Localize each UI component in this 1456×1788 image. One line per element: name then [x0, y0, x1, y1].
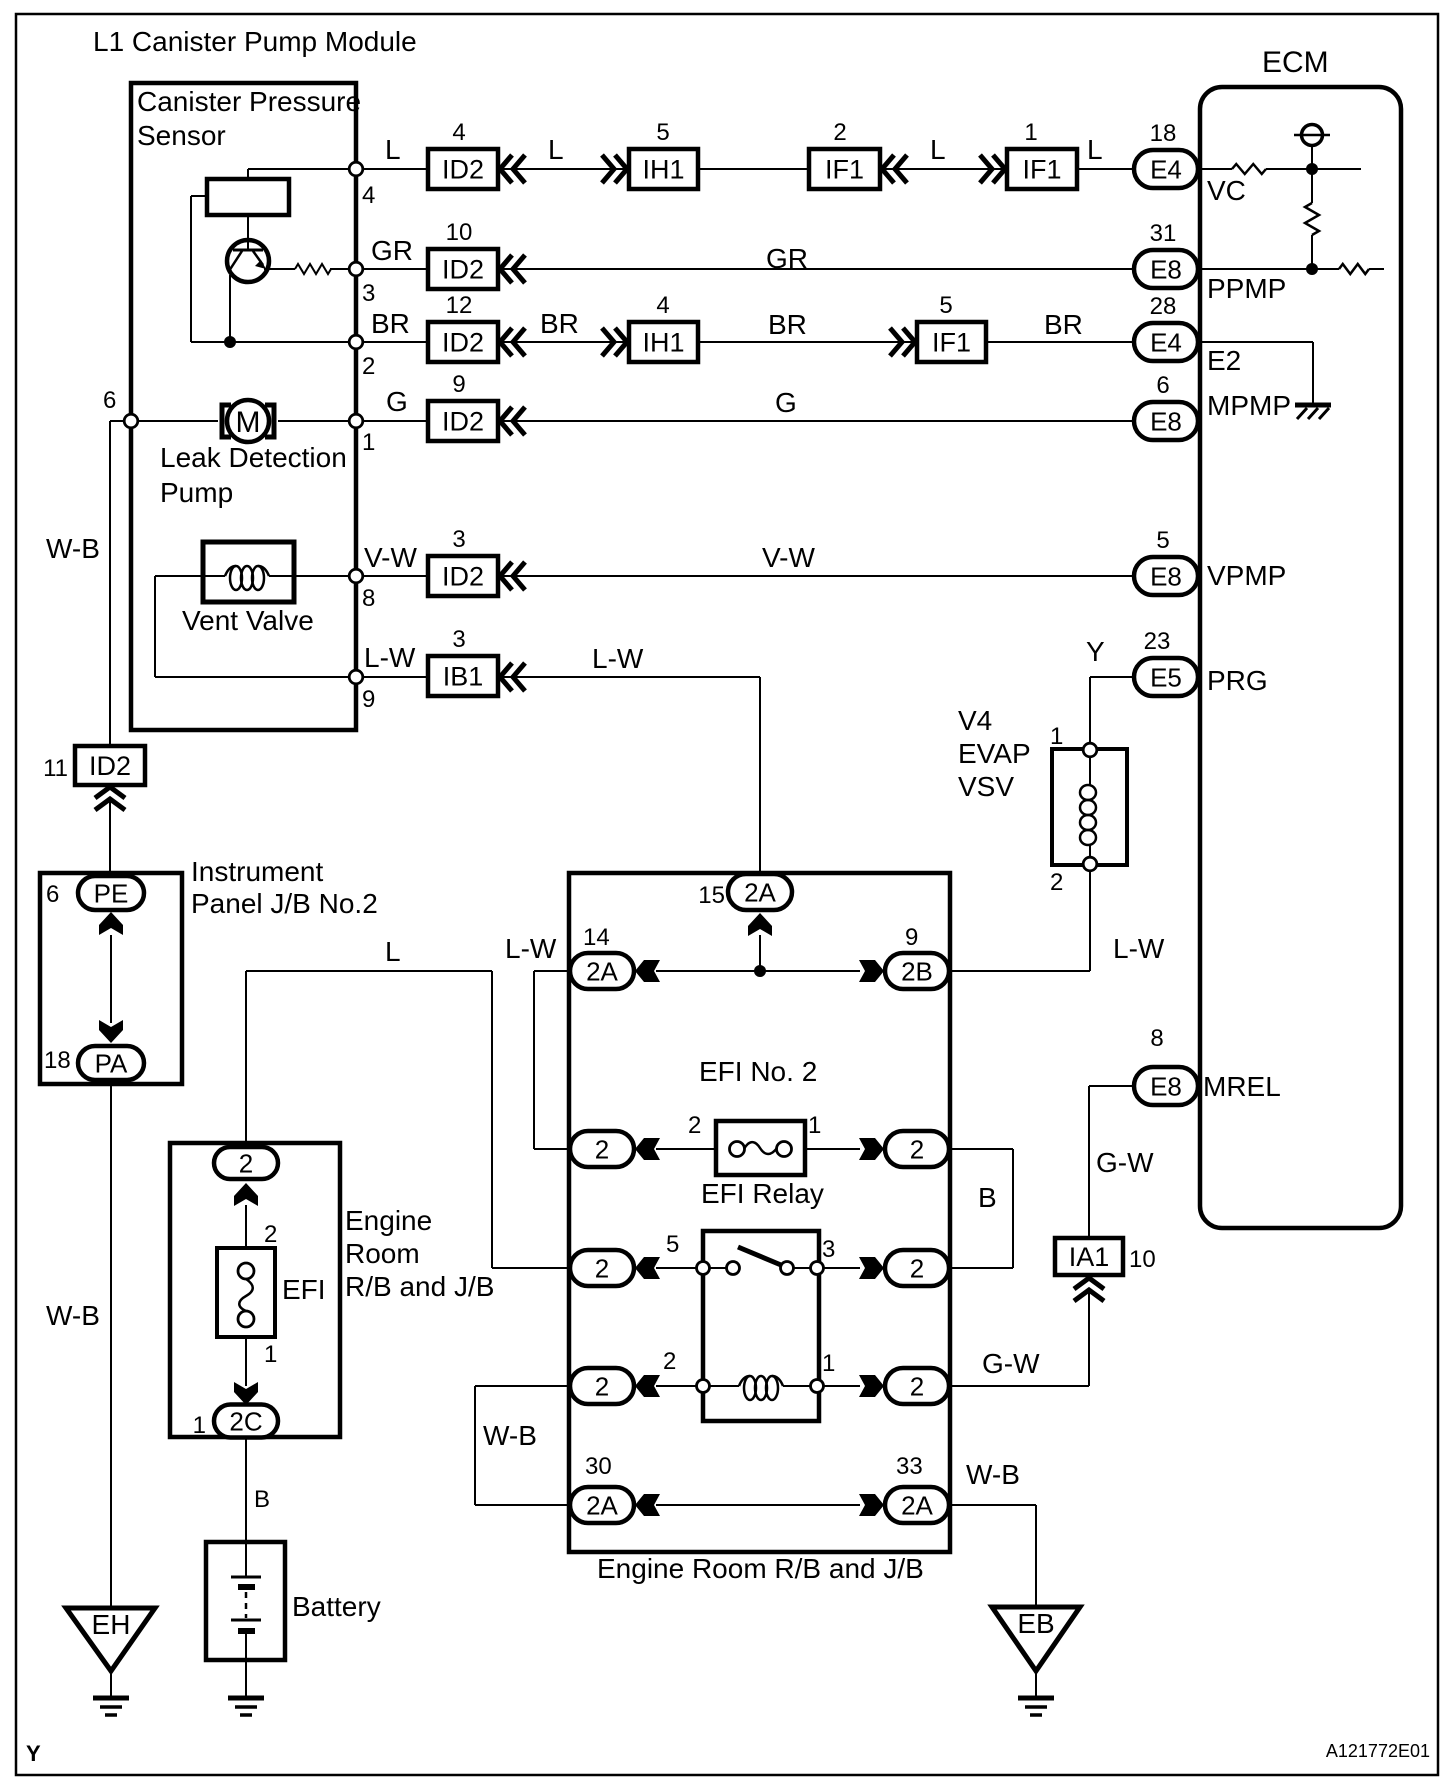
svg-text:PA: PA [95, 1048, 128, 1078]
svg-text:Room: Room [345, 1238, 420, 1269]
relay contact inner circles [727, 1262, 740, 1275]
svg-text:3: 3 [452, 526, 465, 553]
arrow before 2A-33 [859, 1494, 884, 1516]
connector 2A pin15 [728, 874, 792, 910]
svg-text:W-B: W-B [483, 1420, 537, 1451]
wire PE to PA [110, 935, 112, 1023]
arrow down above PA [99, 1020, 123, 1043]
svg-text:E8: E8 [1150, 406, 1182, 436]
EVAP VSV pin1 [1083, 743, 1097, 757]
svg-text:4: 4 [362, 182, 375, 209]
ground EB symbol [1018, 1696, 1054, 1701]
junction VC node [1306, 163, 1318, 175]
connector PE pin6 [78, 876, 144, 910]
svg-text:IF1: IF1 [1022, 155, 1061, 185]
arrow at 2A-30 [635, 1494, 660, 1516]
engine room left box [170, 1143, 340, 1437]
wire PPMP internal [1198, 268, 1339, 270]
svg-text:6: 6 [1156, 372, 1169, 399]
svg-text:8: 8 [362, 585, 375, 612]
connector IF1 pin2 [809, 149, 880, 189]
resistor sensor output [295, 264, 331, 274]
connector 2A pin14 [570, 953, 634, 989]
svg-text:1: 1 [264, 1341, 277, 1368]
svg-text:IF1: IF1 [932, 328, 971, 358]
connector IA1 pin10 [1055, 1238, 1123, 1275]
svg-text:L-W: L-W [505, 933, 557, 964]
wire Y to E5 [1090, 676, 1134, 678]
svg-text:2A: 2A [586, 1490, 618, 1520]
connector IH1 pin5 [629, 149, 698, 189]
chevrons below IA1 [1074, 1278, 1104, 1289]
svg-text:2: 2 [595, 1134, 609, 1164]
svg-text:EFI Relay: EFI Relay [701, 1178, 824, 1209]
EVAP VSV box [1052, 749, 1127, 865]
arrow at 2A-14 [635, 960, 660, 982]
wire VC internal [1198, 168, 1232, 170]
svg-text:3: 3 [822, 1236, 835, 1263]
ground point EH [66, 1608, 155, 1671]
svg-text:G: G [386, 386, 408, 417]
arrow before right 2 fuse row [859, 1138, 884, 1160]
ground point EB [992, 1607, 1080, 1671]
wire resistor to pin3 [330, 268, 349, 270]
svg-text:L-W: L-W [1113, 933, 1165, 964]
svg-text:2B: 2B [901, 956, 933, 986]
svg-text:R/B and J/B: R/B and J/B [345, 1271, 494, 1302]
arrow up below 2A-15 [748, 913, 772, 936]
chevrons before IF1-1 [980, 155, 992, 183]
svg-text:Y: Y [26, 1741, 41, 1766]
junction JB top bus [754, 965, 766, 977]
connector E8 pin31 [1134, 250, 1198, 288]
svg-text:2: 2 [663, 1348, 676, 1375]
connector IF1 pin5 [917, 322, 986, 362]
connector IF1 pin1 [1007, 149, 1077, 189]
svg-text:L-W: L-W [592, 643, 644, 674]
svg-text:IH1: IH1 [642, 328, 684, 358]
svg-text:IB1: IB1 [443, 662, 484, 692]
EVAP VSV coil [1080, 785, 1096, 800]
arrow down above 2C [234, 1382, 258, 1405]
svg-text:VPMP: VPMP [1207, 560, 1286, 591]
fuse EFI No.2 [716, 1121, 805, 1175]
svg-text:ECM: ECM [1262, 46, 1329, 79]
svg-text:GR: GR [371, 235, 413, 266]
connector IB1 pin3 [428, 656, 498, 696]
chevrons below ID2-11 [95, 787, 125, 798]
connector E4 pin18 [1134, 150, 1198, 188]
wire motor to pin1 [278, 420, 349, 422]
svg-text:BR: BR [768, 309, 807, 340]
svg-text:G-W: G-W [1096, 1147, 1154, 1178]
svg-text:6: 6 [103, 387, 116, 414]
svg-text:3: 3 [452, 626, 465, 653]
arrow before right 2 contact row [859, 1257, 884, 1279]
svg-text:Pump: Pump [160, 477, 233, 508]
arrow at left contact row [635, 1257, 660, 1279]
relay contact pin5 circle [697, 1262, 710, 1275]
chevrons after ID2 row8 [500, 562, 512, 590]
svg-text:PE: PE [94, 878, 129, 908]
wire VSV pin2 to JB [1089, 871, 1091, 971]
svg-text:2: 2 [239, 1148, 253, 1178]
svg-text:BR: BR [540, 308, 579, 339]
chevrons before IH1 row1 [602, 155, 614, 183]
wire sensor element to transistor [247, 215, 249, 250]
connector 2A pin30 [570, 1487, 634, 1523]
svg-text:V4: V4 [958, 705, 992, 736]
svg-text:BR: BR [1044, 309, 1083, 340]
svg-text:2: 2 [910, 1371, 924, 1401]
ground battery [228, 1696, 264, 1701]
svg-text:ID2: ID2 [89, 751, 131, 781]
connector E4 pin28 [1134, 323, 1198, 361]
connector 2C pin1 [214, 1405, 278, 1438]
svg-text:8: 8 [1150, 1025, 1163, 1052]
connector 2A pin33 [885, 1487, 949, 1523]
wire transistor to common [229, 275, 231, 342]
relay coil [744, 1376, 756, 1400]
ground EH symbol [93, 1696, 129, 1701]
chevrons after ID2 row1 [500, 155, 512, 183]
canister pump module box [131, 83, 356, 730]
terminal pin 6 canister module [124, 414, 138, 428]
wire vent valve return [154, 576, 156, 677]
wire B loop [949, 1148, 1013, 1150]
svg-text:A121772E01: A121772E01 [1326, 1741, 1430, 1761]
svg-text:PRG: PRG [1207, 665, 1268, 696]
connector ID2 pin9 [428, 401, 498, 441]
svg-text:9: 9 [362, 686, 375, 713]
connector E8 pin5 [1134, 557, 1198, 595]
wire 2A15 to bus [759, 935, 761, 971]
wire BR row3 [363, 341, 428, 343]
connector 2 left coil row [570, 1368, 634, 1404]
connector ID2 pin4 [428, 149, 498, 189]
svg-text:PPMP: PPMP [1207, 273, 1286, 304]
svg-text:G: G [775, 387, 797, 418]
wire contact inner [710, 1267, 727, 1269]
svg-text:ID2: ID2 [442, 407, 484, 437]
wire MREL to IA1 [1089, 1085, 1134, 1087]
terminal pin 3 canister module [349, 262, 363, 276]
instrument panel J/B box [40, 873, 182, 1084]
wire fuse row left [656, 1148, 716, 1150]
svg-text:E8: E8 [1150, 254, 1182, 284]
svg-text:18: 18 [44, 1047, 71, 1074]
svg-text:12: 12 [446, 292, 473, 319]
pressure sensor element [207, 179, 289, 215]
svg-text:EFI No. 2: EFI No. 2 [699, 1056, 817, 1087]
svg-text:14: 14 [583, 924, 610, 951]
svg-text:5: 5 [666, 1231, 679, 1258]
svg-text:V-W: V-W [364, 542, 417, 573]
chevrons after IB1 [500, 663, 512, 691]
connector E8 pin8 MREL [1134, 1067, 1198, 1105]
connector 2 right contact row [885, 1250, 949, 1286]
svg-text:EH: EH [92, 1609, 131, 1640]
svg-text:VSV: VSV [958, 771, 1014, 802]
svg-text:V-W: V-W [762, 542, 815, 573]
relay contact pin3 circle [811, 1262, 824, 1275]
svg-text:1: 1 [362, 429, 375, 456]
svg-text:Battery: Battery [292, 1591, 381, 1622]
svg-text:L: L [1087, 134, 1103, 165]
ground E2 internal [1295, 403, 1331, 408]
wire sensor common to pin2 [191, 341, 349, 343]
connector ID2 pin3 [428, 556, 498, 596]
wire L-W loop [534, 970, 570, 972]
svg-text:EVAP: EVAP [958, 738, 1031, 769]
wire G row4 [363, 420, 428, 422]
chevrons after ID2 row3 [500, 328, 512, 356]
transistor sensor output [227, 240, 269, 282]
svg-text:E8: E8 [1150, 1071, 1182, 1101]
svg-text:E4: E4 [1150, 154, 1182, 184]
svg-text:Engine: Engine [345, 1205, 432, 1236]
svg-text:Instrument: Instrument [191, 856, 323, 887]
svg-text:3: 3 [362, 280, 375, 307]
arrow up below PE [99, 912, 123, 935]
svg-text:30: 30 [585, 1453, 612, 1480]
wire PA to EH [110, 1080, 112, 1608]
svg-text:2: 2 [1050, 869, 1063, 896]
svg-text:2: 2 [595, 1253, 609, 1283]
svg-text:B: B [978, 1182, 997, 1213]
svg-text:2: 2 [264, 1221, 277, 1248]
wire 2A33 to EB [949, 1504, 1036, 1506]
wire ID2-11 to PE [109, 802, 111, 876]
wire L row1 segments [498, 168, 629, 170]
svg-text:BR: BR [371, 308, 410, 339]
relay box [703, 1231, 819, 1421]
wire E2 to ground [1198, 341, 1313, 343]
wire JB top bus [656, 970, 860, 972]
svg-text:1: 1 [1024, 119, 1037, 146]
svg-text:2: 2 [595, 1371, 609, 1401]
wire 2C to battery [245, 1437, 247, 1542]
svg-text:E8: E8 [1150, 561, 1182, 591]
svg-text:ID2: ID2 [442, 155, 484, 185]
svg-text:1: 1 [193, 1412, 206, 1439]
svg-text:9: 9 [452, 371, 465, 398]
connector 2 right coil row [885, 1368, 949, 1404]
svg-text:Panel J/B No.2: Panel J/B No.2 [191, 888, 378, 919]
connector ID2 pin10 [428, 249, 498, 289]
svg-text:2A: 2A [586, 956, 618, 986]
vent valve coil [230, 566, 242, 590]
svg-text:E2: E2 [1207, 345, 1241, 376]
svg-text:2: 2 [688, 1112, 701, 1139]
svg-text:4: 4 [656, 292, 669, 319]
svg-text:Sensor: Sensor [137, 120, 226, 151]
connector 2 EFI holder [214, 1147, 278, 1179]
svg-text:L1 Canister Pump Module: L1 Canister Pump Module [93, 26, 417, 57]
wire battery to ground [245, 1660, 247, 1698]
vent valve box [203, 542, 294, 602]
relay coil pin2 circle [697, 1380, 710, 1393]
svg-text:L: L [548, 134, 564, 165]
svg-text:E5: E5 [1150, 662, 1182, 692]
wire GR row2 [363, 268, 428, 270]
svg-text:B: B [254, 1486, 270, 1513]
chevrons after ID2 row2 [500, 255, 512, 283]
svg-text:2: 2 [910, 1253, 924, 1283]
EVAP VSV pin2 [1083, 857, 1097, 871]
svg-text:1: 1 [1050, 723, 1063, 750]
connector 2 left fuse row [570, 1131, 634, 1167]
svg-text:GR: GR [766, 243, 808, 274]
svg-text:2: 2 [362, 353, 375, 380]
svg-text:6: 6 [46, 881, 59, 908]
svg-text:15: 15 [698, 882, 725, 909]
svg-text:5: 5 [656, 119, 669, 146]
svg-text:MREL: MREL [1203, 1071, 1281, 1102]
wire contact row left [656, 1267, 696, 1269]
connector PA pin18 [78, 1046, 144, 1080]
svg-text:2: 2 [833, 119, 846, 146]
arrow before right 2 coil row [859, 1375, 884, 1397]
svg-text:MPMP: MPMP [1207, 390, 1291, 421]
chevrons before IF1 row3 [890, 328, 902, 356]
svg-text:L: L [385, 936, 401, 967]
svg-text:W-B: W-B [46, 1300, 100, 1331]
svg-text:Y: Y [1086, 636, 1105, 667]
svg-text:Engine Room R/B and J/B: Engine Room R/B and J/B [597, 1553, 924, 1584]
svg-text:1: 1 [822, 1350, 835, 1377]
battery box [206, 1542, 285, 1660]
svg-text:28: 28 [1150, 293, 1177, 320]
wire vent valve row [155, 575, 225, 577]
wire L loop [245, 971, 247, 1147]
svg-text:W-B: W-B [46, 533, 100, 564]
svg-text:L-W: L-W [364, 642, 416, 673]
chevrons after IF1-2 [882, 155, 894, 183]
svg-text:VC: VC [1207, 175, 1246, 206]
svg-text:L: L [385, 134, 401, 165]
svg-text:5: 5 [1156, 527, 1169, 554]
svg-text:G-W: G-W [982, 1348, 1040, 1379]
wire pin4 to sensor element [363, 168, 428, 170]
svg-text:23: 23 [1144, 628, 1171, 655]
svg-text:18: 18 [1150, 120, 1177, 147]
connector E5 pin23 [1134, 658, 1198, 696]
resistor VC internal [1232, 164, 1266, 174]
chevrons before IH1 row3 [602, 328, 614, 356]
svg-text:2A: 2A [744, 877, 776, 907]
wire IA1 to relay coil [1088, 1293, 1090, 1386]
power supply symbol [1302, 125, 1323, 146]
svg-text:2C: 2C [229, 1406, 262, 1436]
svg-text:IA1: IA1 [1069, 1242, 1110, 1272]
wire transistor emitter [264, 268, 295, 270]
terminal pin 4 canister module [349, 162, 363, 176]
connector E8 pin6 [1134, 402, 1198, 440]
wire coil row left [656, 1385, 696, 1387]
wire EFI fuse to 2C [245, 1337, 247, 1386]
wire W-B loop [475, 1385, 569, 1387]
connector 2 left contact row [570, 1250, 634, 1286]
svg-text:31: 31 [1150, 220, 1177, 247]
ECM box [1200, 87, 1401, 1228]
arrow up below 2 [234, 1183, 258, 1206]
arrow at left fuse row [635, 1138, 660, 1160]
svg-text:4: 4 [452, 119, 465, 146]
relay coil pin1 circle [811, 1380, 824, 1393]
svg-text:Canister Pressure: Canister Pressure [137, 86, 361, 117]
svg-text:Vent Valve: Vent Valve [182, 605, 314, 636]
terminal pin 8 canister module [349, 569, 363, 583]
junction sensor common [224, 336, 236, 348]
connector 2 right fuse row [885, 1131, 949, 1167]
connector IH1 pin4 [629, 322, 698, 362]
wire JB bottom row [656, 1504, 860, 1506]
svg-text:9: 9 [905, 924, 918, 951]
svg-text:EFI: EFI [282, 1274, 326, 1305]
wire coil row right [823, 1385, 860, 1387]
connector 2B pin9 [885, 953, 949, 989]
svg-text:W-B: W-B [966, 1459, 1020, 1490]
wire contact row right [823, 1267, 860, 1269]
relay switch blade [738, 1247, 781, 1265]
svg-text:1: 1 [808, 1112, 821, 1139]
terminal pin 1 canister module [349, 414, 363, 428]
engine room J/B box [569, 873, 950, 1552]
svg-text:5: 5 [939, 292, 952, 319]
svg-text:ID2: ID2 [442, 255, 484, 285]
wire V-W row [363, 575, 428, 577]
svg-text:L: L [930, 134, 946, 165]
wire pin6 to motor [138, 420, 218, 422]
battery cells [245, 1542, 247, 1577]
svg-text:IF1: IF1 [825, 155, 864, 185]
svg-text:2A: 2A [901, 1490, 933, 1520]
svg-text:ID2: ID2 [442, 328, 484, 358]
connector ID2 pin11 [75, 746, 145, 785]
svg-text:10: 10 [1129, 1246, 1156, 1273]
svg-text:EB: EB [1017, 1608, 1054, 1639]
motor M leak detection pump [227, 400, 269, 442]
svg-text:33: 33 [896, 1453, 923, 1480]
wire pin6 to ID2-11 [110, 420, 124, 422]
wire EH to ground [110, 1673, 112, 1697]
svg-text:E4: E4 [1150, 327, 1182, 357]
svg-text:Leak Detection: Leak Detection [160, 442, 347, 473]
svg-text:10: 10 [446, 219, 473, 246]
junction PPMP node [1306, 263, 1318, 275]
chevrons after ID2 row4 [500, 407, 512, 435]
wire L-W row9 [363, 676, 428, 678]
wire 2 to EFI fuse [245, 1205, 247, 1248]
resistor VC to PPMP [1305, 203, 1319, 235]
svg-text:M: M [236, 406, 261, 439]
terminal pin 2 canister module [349, 335, 363, 349]
svg-text:11: 11 [43, 755, 68, 782]
terminal pin 9 canister module [349, 670, 363, 684]
wire fuse row right [805, 1148, 860, 1150]
arrow before 2B-9 [859, 960, 884, 982]
connector ID2 pin12 [428, 322, 498, 362]
arrow at left coil row [635, 1375, 660, 1397]
svg-text:2: 2 [910, 1134, 924, 1164]
wire EB to ground [1035, 1673, 1037, 1697]
fuse EFI main [217, 1248, 275, 1337]
svg-text:IH1: IH1 [642, 155, 684, 185]
resistor PPMP internal [1339, 264, 1369, 274]
svg-text:ID2: ID2 [442, 562, 484, 592]
wire sensor base left [191, 195, 207, 197]
